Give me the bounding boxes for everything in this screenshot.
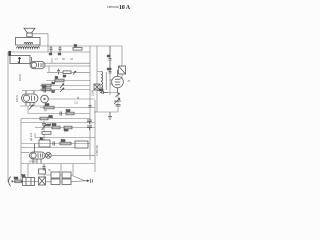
diode arrow below tube L3 bbox=[116, 93, 120, 97]
transformer primary winding bbox=[24, 42, 33, 44]
capacitor C9 bbox=[107, 46, 112, 68]
wire row157 bbox=[51, 154, 95, 156]
wire tube2 top bbox=[22, 90, 52, 92]
padder capacitor box bbox=[94, 84, 100, 90]
box component B1 bbox=[22, 175, 35, 185]
wire speaker to bus bbox=[32, 34, 48, 52]
wire bus y46 bbox=[39, 45, 123, 47]
svg-text:R14: R14 bbox=[64, 130, 69, 132]
trimmer arrow 2 bbox=[60, 88, 64, 92]
wire row112 bbox=[28, 113, 90, 115]
wire into bottom strip bbox=[44, 164, 73, 178]
wire chain row2 bbox=[46, 181, 85, 182]
svg-text:Дв 2х4: Дв 2х4 bbox=[29, 132, 33, 141]
capacitor C10 bbox=[107, 69, 112, 73]
svg-text:R21: R21 bbox=[14, 178, 19, 180]
box chain row1 bbox=[51, 172, 71, 178]
wire row100 bbox=[48, 98, 95, 100]
wire tube L1 to bus (two leads) bbox=[45, 58, 90, 66]
svg-text:6И1П: 6И1П bbox=[15, 95, 19, 102]
resistor R8 bbox=[73, 46, 82, 51]
resistor R15 (right box) bbox=[119, 66, 126, 74]
wire row163 bbox=[21, 163, 95, 165]
resistor R14 bbox=[64, 126, 72, 132]
tube L1 6F1P bbox=[30, 57, 45, 69]
arrow output bbox=[84, 180, 89, 182]
component stack x42 bbox=[39, 169, 46, 185]
wire bus x90 bbox=[89, 46, 91, 160]
wire x110 bbox=[109, 68, 111, 95]
wire coil ends bbox=[97, 72, 101, 91]
junction blob at left bus bbox=[9, 51, 11, 56]
wire row80 bbox=[46, 80, 90, 82]
svg-text:6Ф1П: 6Ф1П bbox=[18, 74, 22, 81]
capacitor C13 bbox=[42, 87, 47, 93]
wire chain row1 bbox=[46, 175, 85, 181]
loudspeaker Gr1 bbox=[24, 28, 35, 37]
wire row143 bbox=[21, 143, 90, 145]
wire row127 bbox=[35, 127, 95, 129]
wire row147 bbox=[21, 147, 75, 149]
resistor R7 bbox=[42, 88, 55, 93]
wire bus x122 bbox=[121, 46, 123, 79]
wire row118 bbox=[21, 118, 90, 120]
wire x28 tube2 down bbox=[27, 106, 29, 114]
svg-text:C14: C14 bbox=[99, 90, 104, 92]
oscillator coil winding B bbox=[101, 82, 103, 92]
resistor R9 bbox=[63, 71, 71, 78]
junction tick row100 bbox=[77, 97, 79, 99]
coil core line bbox=[105, 72, 107, 90]
svg-text:R18: R18 bbox=[61, 140, 66, 142]
wire row122 bbox=[21, 122, 95, 124]
wire bus x95 bbox=[94, 100, 96, 172]
plug bars bbox=[91, 179, 93, 183]
ground symbol bbox=[108, 112, 112, 120]
resistor R6 bbox=[42, 83, 55, 87]
tube L2 6I1P bbox=[22, 91, 39, 107]
svg-text:220В: 220В bbox=[91, 90, 95, 96]
capacitor C6 bbox=[58, 46, 62, 56]
capacitor marks on bus x90 bbox=[89, 106, 92, 108]
svg-text:C12: C12 bbox=[74, 102, 79, 104]
capacitor C15a plates bbox=[116, 105, 121, 107]
resistor R18 bbox=[60, 140, 71, 144]
resistor R17 bbox=[42, 132, 51, 135]
capacitor block C20 bbox=[87, 120, 92, 130]
rectifier box bbox=[39, 138, 50, 147]
oscillator coil winding A bbox=[101, 72, 103, 82]
wire tube2 bottom bbox=[20, 105, 48, 107]
wire x44 chain bbox=[43, 121, 45, 140]
wire row152 bbox=[21, 152, 30, 154]
resistor R21 bbox=[14, 178, 21, 183]
wire row85 bbox=[40, 85, 90, 87]
capacitor C14 bbox=[99, 90, 108, 94]
svg-text:R16: R16 bbox=[66, 110, 71, 112]
resistor R13 bbox=[52, 124, 60, 128]
wire x49 bbox=[48, 66, 50, 72]
capacitor C17 bbox=[42, 124, 52, 128]
svg-text:Lemona: Lemona bbox=[107, 5, 119, 9]
wire row112 right bbox=[94, 101, 118, 112]
svg-text:10 A: 10 A bbox=[119, 5, 131, 11]
capacitor C18 bbox=[53, 142, 55, 146]
wire row72 bbox=[47, 71, 90, 73]
svg-text:R10: R10 bbox=[45, 104, 50, 106]
resistor R5 bbox=[55, 77, 64, 81]
resistor R10 bbox=[44, 104, 54, 108]
wire row107 bbox=[40, 107, 95, 109]
transformer secondary winding bbox=[17, 47, 40, 49]
wire row133 bbox=[35, 133, 95, 138]
IF transformer box bbox=[75, 141, 88, 148]
potentiometer R2 with arrow bbox=[10, 56, 30, 64]
tube L4 bbox=[30, 144, 46, 164]
agc arrow at tube2 bbox=[29, 105, 33, 110]
trimmer arrow bbox=[60, 84, 64, 89]
resistor R16 bbox=[66, 110, 74, 114]
svg-text:C10: C10 bbox=[107, 69, 112, 71]
resistor R11 bbox=[40, 117, 53, 120]
wire bus x97 bbox=[96, 46, 98, 112]
wire bottom main bbox=[13, 180, 39, 182]
mains plug arc bbox=[9, 177, 11, 187]
svg-text:R11: R11 bbox=[49, 117, 54, 119]
trimmer arrow on C17 bbox=[42, 125, 47, 131]
wire left bus x8 bbox=[7, 52, 9, 182]
svg-text:C17: C17 bbox=[47, 125, 52, 127]
title: Lemona 10 A bbox=[107, 5, 131, 11]
box chain row2 bbox=[51, 179, 71, 185]
wire x28 to B1 bbox=[27, 164, 29, 178]
svg-text:C13: C13 bbox=[42, 87, 47, 89]
diode arrow D1 bbox=[73, 71, 76, 75]
wire left x21 bbox=[20, 119, 22, 183]
svg-text:R13: R13 bbox=[52, 124, 57, 126]
trimmer C15 bbox=[114, 98, 121, 104]
capacitor C5 bbox=[49, 46, 53, 56]
dial lamp bbox=[41, 95, 49, 103]
wire row89 bbox=[40, 89, 90, 91]
lamp 2 bbox=[45, 152, 51, 158]
wire bus y52 bbox=[8, 51, 90, 53]
capacitor C16 bbox=[60, 112, 62, 116]
capacitor chain left-bottom bbox=[43, 164, 46, 171]
wire C14 to trimmer bbox=[108, 93, 118, 99]
output transformer Tr2 box bbox=[16, 38, 41, 46]
tube L3 circle (heptode) bbox=[110, 70, 123, 93]
svg-text:2×6П14П: 2×6П14П bbox=[95, 145, 99, 156]
capacitor C11 bbox=[57, 69, 60, 75]
